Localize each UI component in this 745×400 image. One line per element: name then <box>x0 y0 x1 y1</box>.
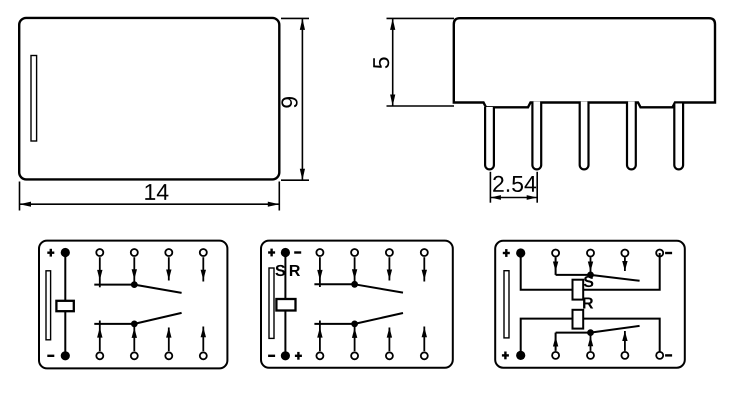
dimension 9 line <box>301 18 303 180</box>
box1 top arrow col4 <box>201 257 206 281</box>
box3 top contact fixed line <box>556 274 591 276</box>
relay body side view <box>454 18 715 107</box>
box2 bottom arrow col3 <box>387 327 392 351</box>
box3 bottom contact blade <box>591 326 640 333</box>
box3 set coil wire left <box>521 253 573 290</box>
dimension 5 arrowhead top <box>390 18 395 30</box>
box3 set coil terminal dot top <box>516 248 525 257</box>
box3 top pin circles <box>552 250 663 257</box>
box1 top arrow col1 <box>97 257 102 287</box>
box3 minus label bottom <box>665 354 672 356</box>
dimension label 2.54 <box>493 176 503 192</box>
box1 bottom arrow col1 <box>97 321 102 352</box>
box2 plus label bottom <box>295 352 302 360</box>
dimension 2.54 arrowhead left <box>490 195 501 200</box>
box1 bottom arrow col4 <box>201 327 206 352</box>
box2 top pin circles <box>316 249 427 256</box>
dimension label 14 <box>145 184 155 200</box>
box3 reset coil terminal dot bottom <box>516 351 525 360</box>
box3 reset coil wire right <box>583 319 660 356</box>
dimension 5 line <box>392 18 394 106</box>
box1 bottom arrow col3 <box>166 327 171 351</box>
box1 coil terminal dot top <box>61 248 70 257</box>
box2 minus label top <box>294 251 301 253</box>
dimension 14 arrowhead left <box>20 202 32 207</box>
box1 coil terminal dot bottom <box>61 351 70 360</box>
box1 polarity bar <box>46 271 51 340</box>
box3 bottom arrow col2 <box>588 335 593 351</box>
pin 5 (side view) <box>674 104 683 170</box>
box3 bottom arrow col1 <box>553 333 558 351</box>
box2 bottom arrow col2 <box>352 326 357 352</box>
polarity slot mark (top view) <box>31 56 37 142</box>
dimension 5 extension line top <box>387 17 455 19</box>
box3 plus label top <box>503 249 510 257</box>
box2 bottom contact blade <box>355 313 403 324</box>
box3 minus label top <box>665 252 672 254</box>
box3 top contact junction <box>587 272 594 279</box>
schematic box 2 outline <box>261 241 453 368</box>
box1 bottom contact blade <box>134 313 181 324</box>
box2 top contact fixed line <box>314 283 354 285</box>
box2 top arrow col1 <box>317 257 322 287</box>
box3 top arrow col1 <box>553 257 558 275</box>
box2 top arrow col2 <box>352 257 357 283</box>
box2 coil terminal dot bottom <box>281 351 290 360</box>
dimension label 9 <box>281 97 297 108</box>
box1 top contact junction <box>131 281 138 288</box>
box2 top arrow col4 <box>422 257 427 281</box>
box3 top arrow col2 <box>588 257 593 273</box>
box3 set coil S <box>573 280 584 300</box>
dimension 14 extension line left <box>19 182 21 211</box>
schematic box 3 outline <box>495 241 685 368</box>
box3 S label <box>584 276 594 287</box>
box1 coil <box>56 301 73 311</box>
dimension 14 extension line right <box>278 182 280 211</box>
box2 bottom arrow col1 <box>317 321 322 352</box>
dimension 9 arrowhead bottom <box>300 169 305 181</box>
box2 plus label top <box>268 249 275 257</box>
box2 R label <box>290 265 300 276</box>
dimension 5 extension line bottom <box>387 105 455 107</box>
box3 plus label bottom <box>502 352 509 360</box>
box1 bottom pin circles <box>96 352 207 359</box>
dimension 2.54 line <box>490 197 537 199</box>
pin 4 (side view) <box>627 102 636 170</box>
box2 minus label bottom <box>268 355 275 357</box>
box2 bottom contact fixed line <box>314 323 354 325</box>
dimension 2.54 extension line right <box>536 172 538 203</box>
dimension 9 extension line bottom <box>281 179 309 181</box>
box3 set coil wire right <box>583 253 660 290</box>
dimension 2.54 arrowhead right <box>527 195 538 200</box>
box1 top contact blade <box>134 285 181 293</box>
box1 bottom contact junction <box>131 321 138 328</box>
dimension 14 arrowhead right <box>268 202 280 207</box>
box2 coil terminal dot top <box>281 248 290 257</box>
box2 bottom contact junction <box>351 321 358 328</box>
schematic box 1 outline <box>39 241 227 369</box>
dimension label 5 <box>373 57 389 68</box>
box2 bottom arrow col4 <box>422 327 427 352</box>
box2 top arrow col3 <box>387 257 392 280</box>
dimension 14 line <box>20 203 280 205</box>
box1 bottom arrow col2 <box>132 326 137 352</box>
box2 top contact junction <box>351 281 358 288</box>
box1 minus label bottom <box>47 355 54 357</box>
box3 R label <box>583 297 593 308</box>
box1 plus label top <box>47 249 54 257</box>
pin 3 (side view) <box>580 102 589 170</box>
box3 bottom pin circles <box>552 352 663 359</box>
pin 2 (side view) <box>532 102 541 170</box>
box2 bottom pin circles <box>316 352 427 359</box>
box3 bottom contact junction <box>587 329 594 336</box>
box2 coil wire <box>284 253 286 356</box>
box3 top contact blade <box>591 275 640 281</box>
pin 1 (side view) <box>485 107 494 169</box>
box2 top contact blade <box>355 284 403 292</box>
box3 reset coil R <box>573 310 584 329</box>
box2 coil <box>276 299 295 311</box>
box1 top pin circles <box>96 249 207 256</box>
dimension 9 extension line top <box>281 17 309 19</box>
dimension 2.54 extension line left <box>489 172 491 203</box>
box3 bottom arrow col3 <box>622 331 627 351</box>
box1 top arrow col3 <box>166 257 171 280</box>
dimension 5 arrowhead bottom <box>390 95 395 107</box>
dimension 9 arrowhead top <box>300 18 305 30</box>
box3 bottom contact fixed line <box>556 332 591 334</box>
box2 S label <box>275 265 285 276</box>
box3 polarity bar <box>504 271 509 338</box>
box3 reset coil wire left <box>521 319 573 356</box>
box2 polarity bar <box>269 268 274 338</box>
box3 top arrow col3 <box>622 257 627 271</box>
box1 top arrow col2 <box>132 257 137 283</box>
relay body top view <box>19 18 279 180</box>
box1 coil wire <box>64 253 66 356</box>
box1 top contact fixed line <box>94 284 134 286</box>
box1 bottom contact fixed line <box>94 323 134 325</box>
